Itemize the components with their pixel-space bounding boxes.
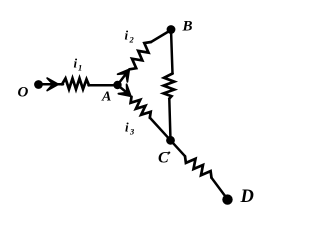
svg-text:i: i [74, 56, 78, 71]
svg-text:D: D [240, 187, 254, 207]
svg-text:3: 3 [129, 127, 135, 137]
svg-text:2: 2 [129, 35, 135, 45]
svg-text:O: O [18, 85, 29, 101]
svg-text:i: i [125, 120, 129, 135]
svg-text:C: C [158, 150, 169, 167]
svg-text:B: B [182, 19, 193, 35]
svg-text:A: A [101, 90, 111, 105]
svg-text:1: 1 [78, 63, 82, 73]
svg-text:i: i [125, 28, 129, 43]
